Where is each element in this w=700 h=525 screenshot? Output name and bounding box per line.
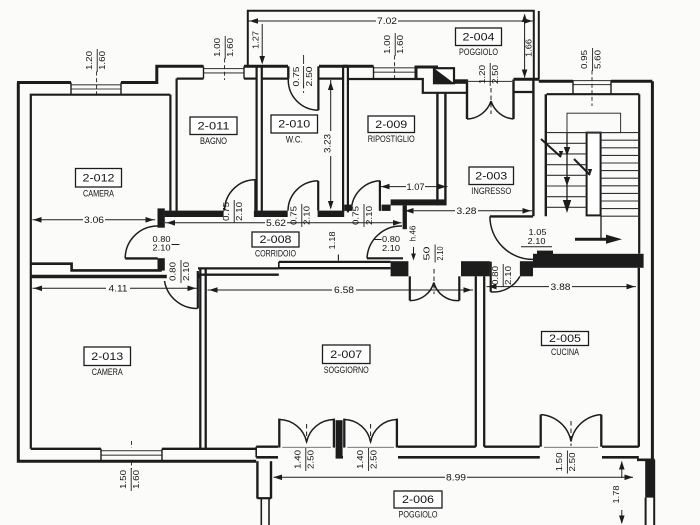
svg-text:2-010: 2-010 <box>278 119 310 131</box>
svg-text:W.C.: W.C. <box>286 135 303 145</box>
svg-text:3.23: 3.23 <box>323 134 333 153</box>
svg-text:2-009: 2-009 <box>375 119 407 131</box>
svg-text:2-005: 2-005 <box>549 333 581 345</box>
svg-text:0.80: 0.80 <box>153 235 172 244</box>
svg-text:2.10: 2.10 <box>365 205 374 225</box>
svg-text:1.27: 1.27 <box>251 31 261 49</box>
svg-text:RIPOSTIGLIO: RIPOSTIGLIO <box>368 134 415 144</box>
svg-text:2-004: 2-004 <box>463 31 495 43</box>
svg-text:1.60: 1.60 <box>132 469 141 489</box>
svg-text:1.20: 1.20 <box>478 64 487 84</box>
svg-text:2-003: 2-003 <box>475 170 507 182</box>
svg-text:0.95: 0.95 <box>580 49 589 69</box>
svg-text:0.75: 0.75 <box>222 201 231 221</box>
svg-text:1.60: 1.60 <box>396 34 405 54</box>
svg-text:0.80: 0.80 <box>491 265 500 285</box>
svg-text:h.46: h.46 <box>409 225 418 241</box>
svg-text:3.88: 3.88 <box>551 282 571 292</box>
svg-text:2.10: 2.10 <box>153 244 172 253</box>
svg-text:2.50: 2.50 <box>568 452 577 472</box>
svg-text:POGGIOLO: POGGIOLO <box>459 47 498 57</box>
svg-text:2-013: 2-013 <box>91 351 123 363</box>
svg-text:0.80: 0.80 <box>382 235 401 244</box>
svg-text:CAMERA: CAMERA <box>92 367 123 377</box>
svg-text:0.75: 0.75 <box>352 205 361 225</box>
svg-text:1.50: 1.50 <box>119 469 128 489</box>
svg-text:1.50: 1.50 <box>555 452 564 472</box>
svg-text:2.50: 2.50 <box>491 64 500 84</box>
svg-text:8.99: 8.99 <box>446 473 466 483</box>
svg-text:3.28: 3.28 <box>457 206 477 216</box>
svg-text:1.40: 1.40 <box>356 449 365 469</box>
svg-text:2-011: 2-011 <box>198 120 230 132</box>
svg-text:CAMERA: CAMERA <box>83 189 114 199</box>
svg-text:CORRIDOIO: CORRIDOIO <box>255 249 296 259</box>
svg-text:1.60: 1.60 <box>226 37 235 57</box>
svg-text:2-006: 2-006 <box>402 494 434 506</box>
svg-text:2.50: 2.50 <box>369 449 378 469</box>
svg-text:50: 50 <box>423 246 432 261</box>
svg-text:2.50: 2.50 <box>307 449 316 469</box>
svg-text:6.58: 6.58 <box>334 285 354 295</box>
svg-text:3.06: 3.06 <box>84 215 104 225</box>
svg-text:2.10: 2.10 <box>504 265 513 285</box>
svg-text:2.10: 2.10 <box>182 261 191 281</box>
svg-text:1.18: 1.18 <box>327 231 337 249</box>
svg-text:2.10: 2.10 <box>436 246 445 260</box>
svg-text:2-012: 2-012 <box>83 172 115 184</box>
svg-text:2.50: 2.50 <box>305 66 314 87</box>
svg-text:POGGIOLO: POGGIOLO <box>399 510 438 520</box>
svg-text:7.02: 7.02 <box>377 16 397 26</box>
svg-text:1.00: 1.00 <box>383 34 392 54</box>
svg-text:1.78: 1.78 <box>611 485 621 503</box>
svg-text:2.10: 2.10 <box>528 236 546 246</box>
svg-text:1.07: 1.07 <box>407 182 425 192</box>
svg-text:2-007: 2-007 <box>330 349 362 361</box>
svg-text:SOGGIORNO: SOGGIORNO <box>324 365 369 375</box>
svg-text:5.60: 5.60 <box>593 49 602 69</box>
svg-text:1.66: 1.66 <box>524 39 534 57</box>
svg-text:CUCINA: CUCINA <box>551 347 579 357</box>
svg-text:4.11: 4.11 <box>109 284 128 294</box>
svg-text:2-008: 2-008 <box>260 234 292 246</box>
svg-text:0.75: 0.75 <box>292 66 301 87</box>
svg-text:1.20: 1.20 <box>85 50 94 70</box>
svg-text:INGRESSO: INGRESSO <box>471 186 511 196</box>
svg-text:2.10: 2.10 <box>303 205 312 225</box>
svg-text:2.10: 2.10 <box>382 244 401 253</box>
svg-text:5.62: 5.62 <box>266 218 286 228</box>
svg-text:1.60: 1.60 <box>98 50 107 70</box>
svg-text:1.40: 1.40 <box>293 449 302 469</box>
svg-text:1.00: 1.00 <box>213 37 222 57</box>
svg-text:BAGNO: BAGNO <box>200 136 227 146</box>
svg-text:0.80: 0.80 <box>169 261 178 281</box>
svg-text:2.10: 2.10 <box>235 201 244 221</box>
svg-text:0.75: 0.75 <box>289 205 298 225</box>
